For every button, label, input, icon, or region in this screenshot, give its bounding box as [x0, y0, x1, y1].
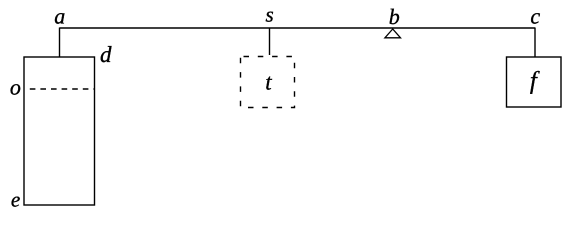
svg-text:b: b [389, 4, 400, 29]
dashed liquid level line at o [30, 88, 95, 90]
svg-text:o: o [10, 74, 21, 99]
svg-text:e: e [11, 187, 20, 211]
wire drop at s [269, 28, 271, 55]
svg-text:s: s [266, 2, 274, 26]
container rectangle d-e [24, 57, 95, 205]
svg-text:t: t [265, 69, 272, 94]
fulcrum triangle at b [385, 29, 401, 38]
box f [507, 57, 562, 107]
svg-text:a: a [54, 3, 65, 28]
svg-text:d: d [100, 42, 112, 67]
lever beam wire a-s-b-c [60, 27, 536, 29]
svg-text:c: c [530, 3, 540, 28]
wire drop at c [534, 28, 536, 58]
dashed box t [241, 57, 295, 108]
wire drop at a [59, 28, 61, 58]
svg-text:f: f [530, 68, 540, 95]
